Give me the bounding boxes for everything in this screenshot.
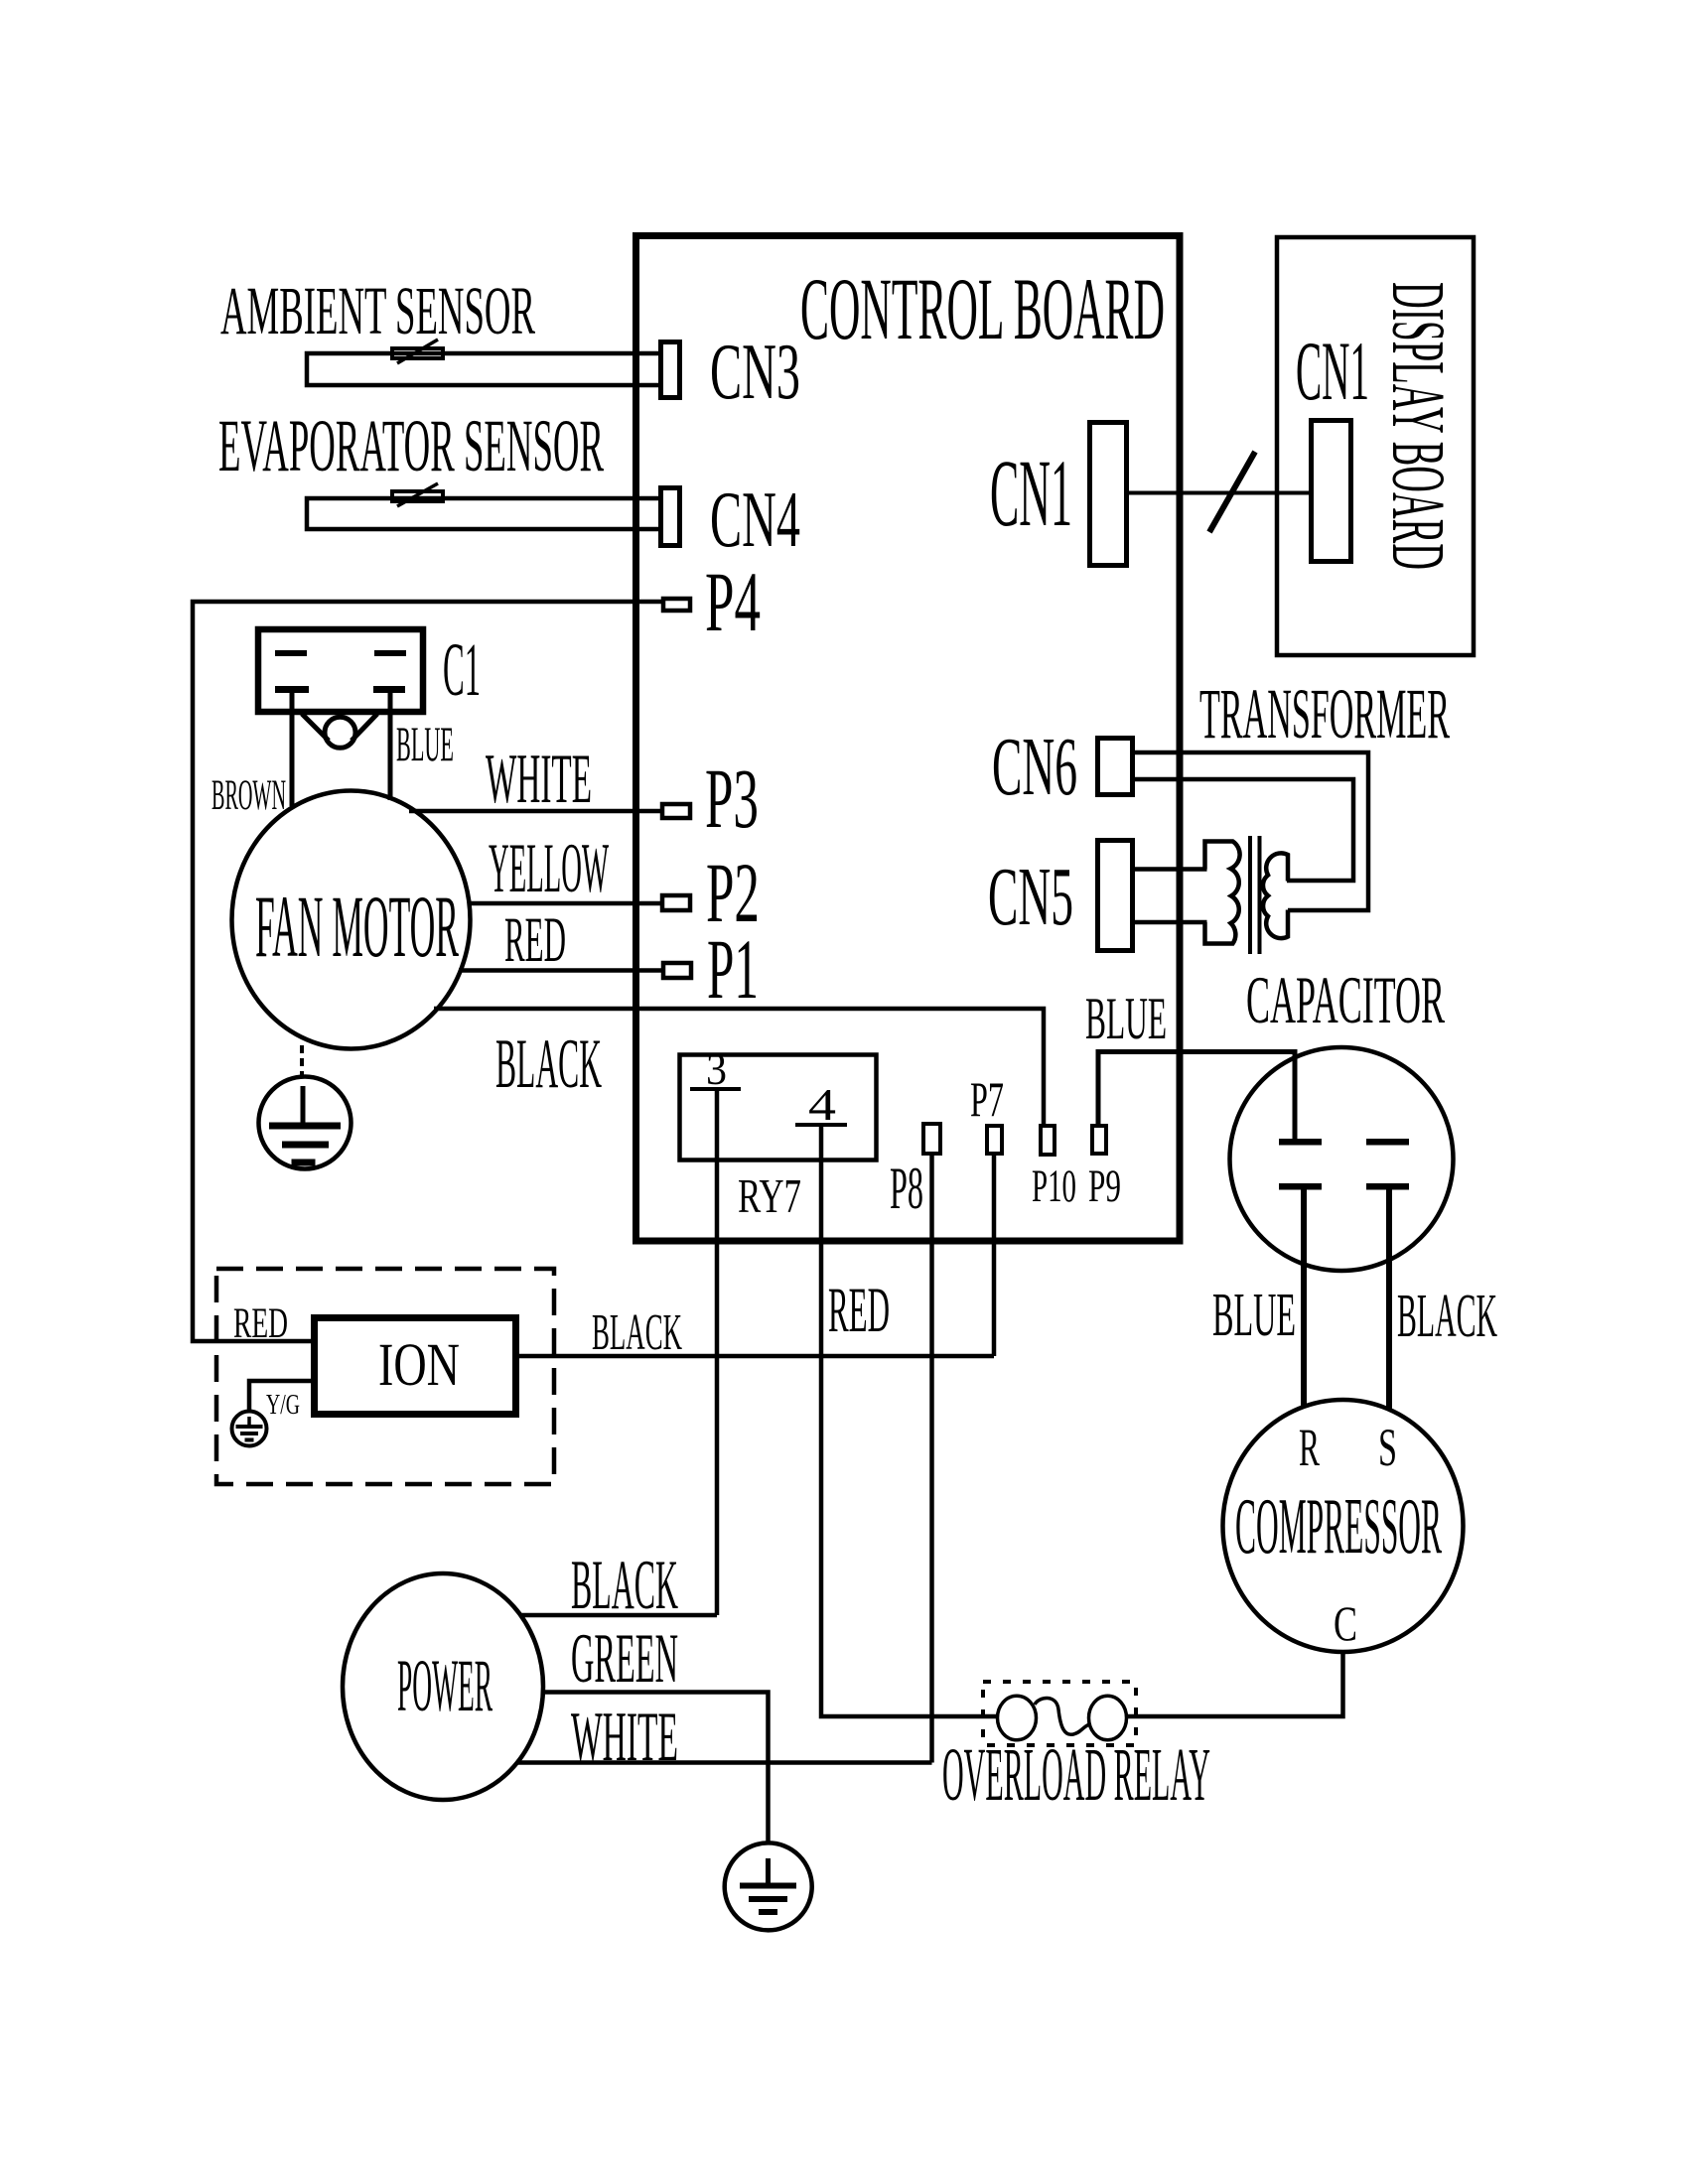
power GREEN wire to ground bbox=[543, 1693, 769, 1844]
wire P4 to ION (RED) enclosure path bbox=[193, 602, 663, 1341]
YELLOW wire to P2 bbox=[470, 901, 662, 906]
power BLACK wire bbox=[521, 1613, 717, 1618]
svg-text:Y/G: Y/G bbox=[266, 1389, 300, 1421]
C1 right cap plates bbox=[374, 650, 406, 656]
ION dashed enclosure bbox=[216, 1269, 554, 1484]
svg-text:RED: RED bbox=[233, 1300, 288, 1347]
connector P1 bbox=[663, 963, 691, 978]
svg-text:CN6: CN6 bbox=[992, 721, 1077, 813]
overload relay left contact circle bbox=[998, 1696, 1037, 1740]
compressor circle bbox=[1223, 1400, 1464, 1652]
power WHITE wire bbox=[518, 1760, 932, 1765]
capacitor circle bbox=[1230, 1047, 1454, 1271]
connector P10 bbox=[1041, 1126, 1055, 1155]
transformer core bbox=[1248, 836, 1252, 954]
capacitor BLUE lead to compressor R bbox=[1301, 1187, 1307, 1408]
svg-text:S: S bbox=[1378, 1418, 1397, 1477]
svg-text:P7: P7 bbox=[970, 1071, 1004, 1127]
power source circle bbox=[343, 1573, 543, 1800]
connector CN3 bbox=[661, 342, 680, 398]
svg-text:RED: RED bbox=[828, 1275, 890, 1346]
ambient sensor probe loop wire bbox=[307, 353, 658, 385]
svg-text:P10: P10 bbox=[1032, 1160, 1076, 1212]
display board outline bbox=[1277, 237, 1474, 655]
svg-text:3: 3 bbox=[706, 1044, 727, 1094]
svg-text:CN3: CN3 bbox=[710, 327, 800, 416]
multi-wire slash bbox=[1209, 452, 1255, 532]
svg-text:C: C bbox=[1334, 1595, 1357, 1651]
connector CN4 bbox=[661, 488, 680, 546]
ION Y/G ground wire bbox=[249, 1381, 314, 1412]
transformer secondary winding bbox=[1263, 853, 1288, 938]
svg-text:WHITE: WHITE bbox=[486, 741, 592, 818]
overload relay right contact circle bbox=[1089, 1696, 1127, 1740]
svg-text:CONTROL BOARD: CONTROL BOARD bbox=[800, 261, 1165, 358]
relay RY7 box bbox=[680, 1055, 877, 1160]
capacitor plates bbox=[1279, 1139, 1322, 1146]
evaporator sensor probe loop wire bbox=[307, 498, 658, 529]
svg-text:BROWN: BROWN bbox=[211, 772, 286, 819]
fan motor circle bbox=[232, 791, 471, 1049]
svg-text:FAN MOTOR: FAN MOTOR bbox=[255, 879, 459, 976]
svg-text:ION: ION bbox=[378, 1332, 460, 1399]
ambient sensor thermistor body bbox=[392, 348, 443, 358]
svg-text:BLUE: BLUE bbox=[1085, 986, 1167, 1051]
svg-text:YELLOW: YELLOW bbox=[489, 830, 609, 907]
svg-text:RY7: RY7 bbox=[738, 1168, 801, 1223]
display board CN1 connector bbox=[1312, 421, 1351, 562]
svg-text:BLUE: BLUE bbox=[1212, 1282, 1296, 1349]
wire CN1 to display board bbox=[1129, 491, 1309, 495]
wire CN6 bottom to transformer secondary top bbox=[1135, 779, 1353, 881]
wire RY7 pin4 RED to overload relay bbox=[821, 1125, 999, 1716]
BLACK wire from fan motor to P10 bbox=[434, 1009, 1044, 1126]
evaporator sensor thermistor diagonal bbox=[397, 483, 438, 506]
wire P7 to ION BLACK bbox=[992, 1154, 997, 1356]
ION ground symbol bbox=[232, 1412, 267, 1446]
wire RY7 pin3 to power BLACK bbox=[715, 1089, 720, 1615]
connector CN1 on control board bbox=[1090, 423, 1127, 566]
capacitor C1 box bbox=[258, 629, 423, 712]
svg-text:CN4: CN4 bbox=[710, 475, 800, 564]
wire overload relay to compressor C bbox=[1125, 1652, 1343, 1716]
svg-text:P9: P9 bbox=[1088, 1160, 1121, 1212]
connector P8 bbox=[923, 1124, 940, 1154]
svg-text:AMBIENT SENSOR: AMBIENT SENSOR bbox=[220, 273, 535, 348]
svg-text:CN1: CN1 bbox=[990, 440, 1072, 546]
svg-text:R: R bbox=[1299, 1418, 1320, 1477]
connector P4 bbox=[663, 599, 690, 611]
ION BLACK output wire bbox=[519, 1354, 994, 1359]
blue lead wire bbox=[388, 689, 393, 800]
svg-text:BLUE: BLUE bbox=[396, 716, 454, 771]
power ground symbol bbox=[725, 1843, 812, 1930]
svg-text:GREEN: GREEN bbox=[571, 1620, 678, 1698]
ambient sensor thermistor diagonal bbox=[397, 340, 438, 363]
svg-text:BLACK: BLACK bbox=[1397, 1283, 1497, 1350]
svg-text:P1: P1 bbox=[707, 921, 759, 1017]
svg-text:CAPACITOR: CAPACITOR bbox=[1246, 962, 1445, 1037]
connector P3 bbox=[662, 804, 690, 818]
svg-text:BLACK: BLACK bbox=[495, 1025, 602, 1103]
svg-text:P4: P4 bbox=[705, 554, 761, 649]
RED wire to P1 bbox=[459, 968, 663, 973]
svg-text:COMPRESSOR: COMPRESSOR bbox=[1235, 1483, 1442, 1570]
svg-text:CN5: CN5 bbox=[988, 851, 1073, 943]
svg-text:POWER: POWER bbox=[397, 1645, 492, 1727]
wires CN5 to transformer primary bbox=[1135, 867, 1207, 872]
svg-text:C1: C1 bbox=[443, 628, 481, 712]
svg-text:4: 4 bbox=[808, 1080, 836, 1130]
svg-text:OVERLOAD RELAY: OVERLOAD RELAY bbox=[942, 1733, 1210, 1817]
overload relay dotted box bbox=[983, 1682, 1136, 1745]
wire P8 to power WHITE bbox=[929, 1154, 934, 1763]
capacitor BLACK lead to compressor S bbox=[1386, 1187, 1392, 1409]
brown lead wire bbox=[290, 689, 295, 806]
fan motor ground symbol bbox=[259, 1077, 352, 1169]
svg-text:P8: P8 bbox=[890, 1156, 923, 1221]
svg-text:TRANSFORMER: TRANSFORMER bbox=[1199, 674, 1450, 753]
connector CN6 bbox=[1098, 739, 1133, 795]
connector P9 bbox=[1092, 1126, 1106, 1154]
svg-text:RED: RED bbox=[504, 904, 566, 976]
connector P2 bbox=[662, 895, 690, 910]
connector P7 bbox=[987, 1126, 1002, 1154]
svg-text:DISPLAY BOARD: DISPLAY BOARD bbox=[1376, 282, 1460, 570]
connector CN5 bbox=[1098, 841, 1133, 951]
transformer primary winding bbox=[1205, 842, 1240, 944]
svg-text:BLACK: BLACK bbox=[571, 1547, 678, 1624]
wire P9 to capacitor bbox=[1098, 1052, 1295, 1140]
C1 left cap plates bbox=[275, 650, 307, 656]
ION box bbox=[315, 1318, 516, 1415]
fan motor ground dashed lead bbox=[300, 1045, 304, 1077]
C1 thermal protector V + circle bbox=[302, 714, 329, 741]
svg-text:BLACK: BLACK bbox=[592, 1304, 682, 1361]
evaporator sensor thermistor body bbox=[392, 491, 443, 501]
overload relay bimetal wave bbox=[1035, 1698, 1089, 1734]
svg-text:P3: P3 bbox=[705, 751, 759, 846]
wire CN6 top to transformer secondary bottom bbox=[1135, 752, 1368, 910]
svg-text:EVAPORATOR SENSOR: EVAPORATOR SENSOR bbox=[218, 405, 604, 487]
svg-text:WHITE: WHITE bbox=[571, 1699, 678, 1776]
WHITE wire to P3 bbox=[409, 809, 662, 814]
svg-text:CN1: CN1 bbox=[1296, 325, 1369, 418]
control board outline bbox=[636, 236, 1181, 1242]
